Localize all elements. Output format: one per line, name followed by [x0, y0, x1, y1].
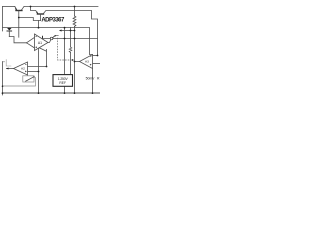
svg-text:ADP3367: ADP3367 — [41, 17, 65, 23]
svg-text:A1: A1 — [38, 41, 42, 45]
svg-text:A3: A3 — [85, 60, 89, 64]
svg-text:R: R — [97, 76, 100, 80]
svg-text:50mV: 50mV — [86, 76, 96, 80]
svg-text:A2: A2 — [21, 67, 25, 71]
svg-text:REF: REF — [59, 81, 66, 85]
